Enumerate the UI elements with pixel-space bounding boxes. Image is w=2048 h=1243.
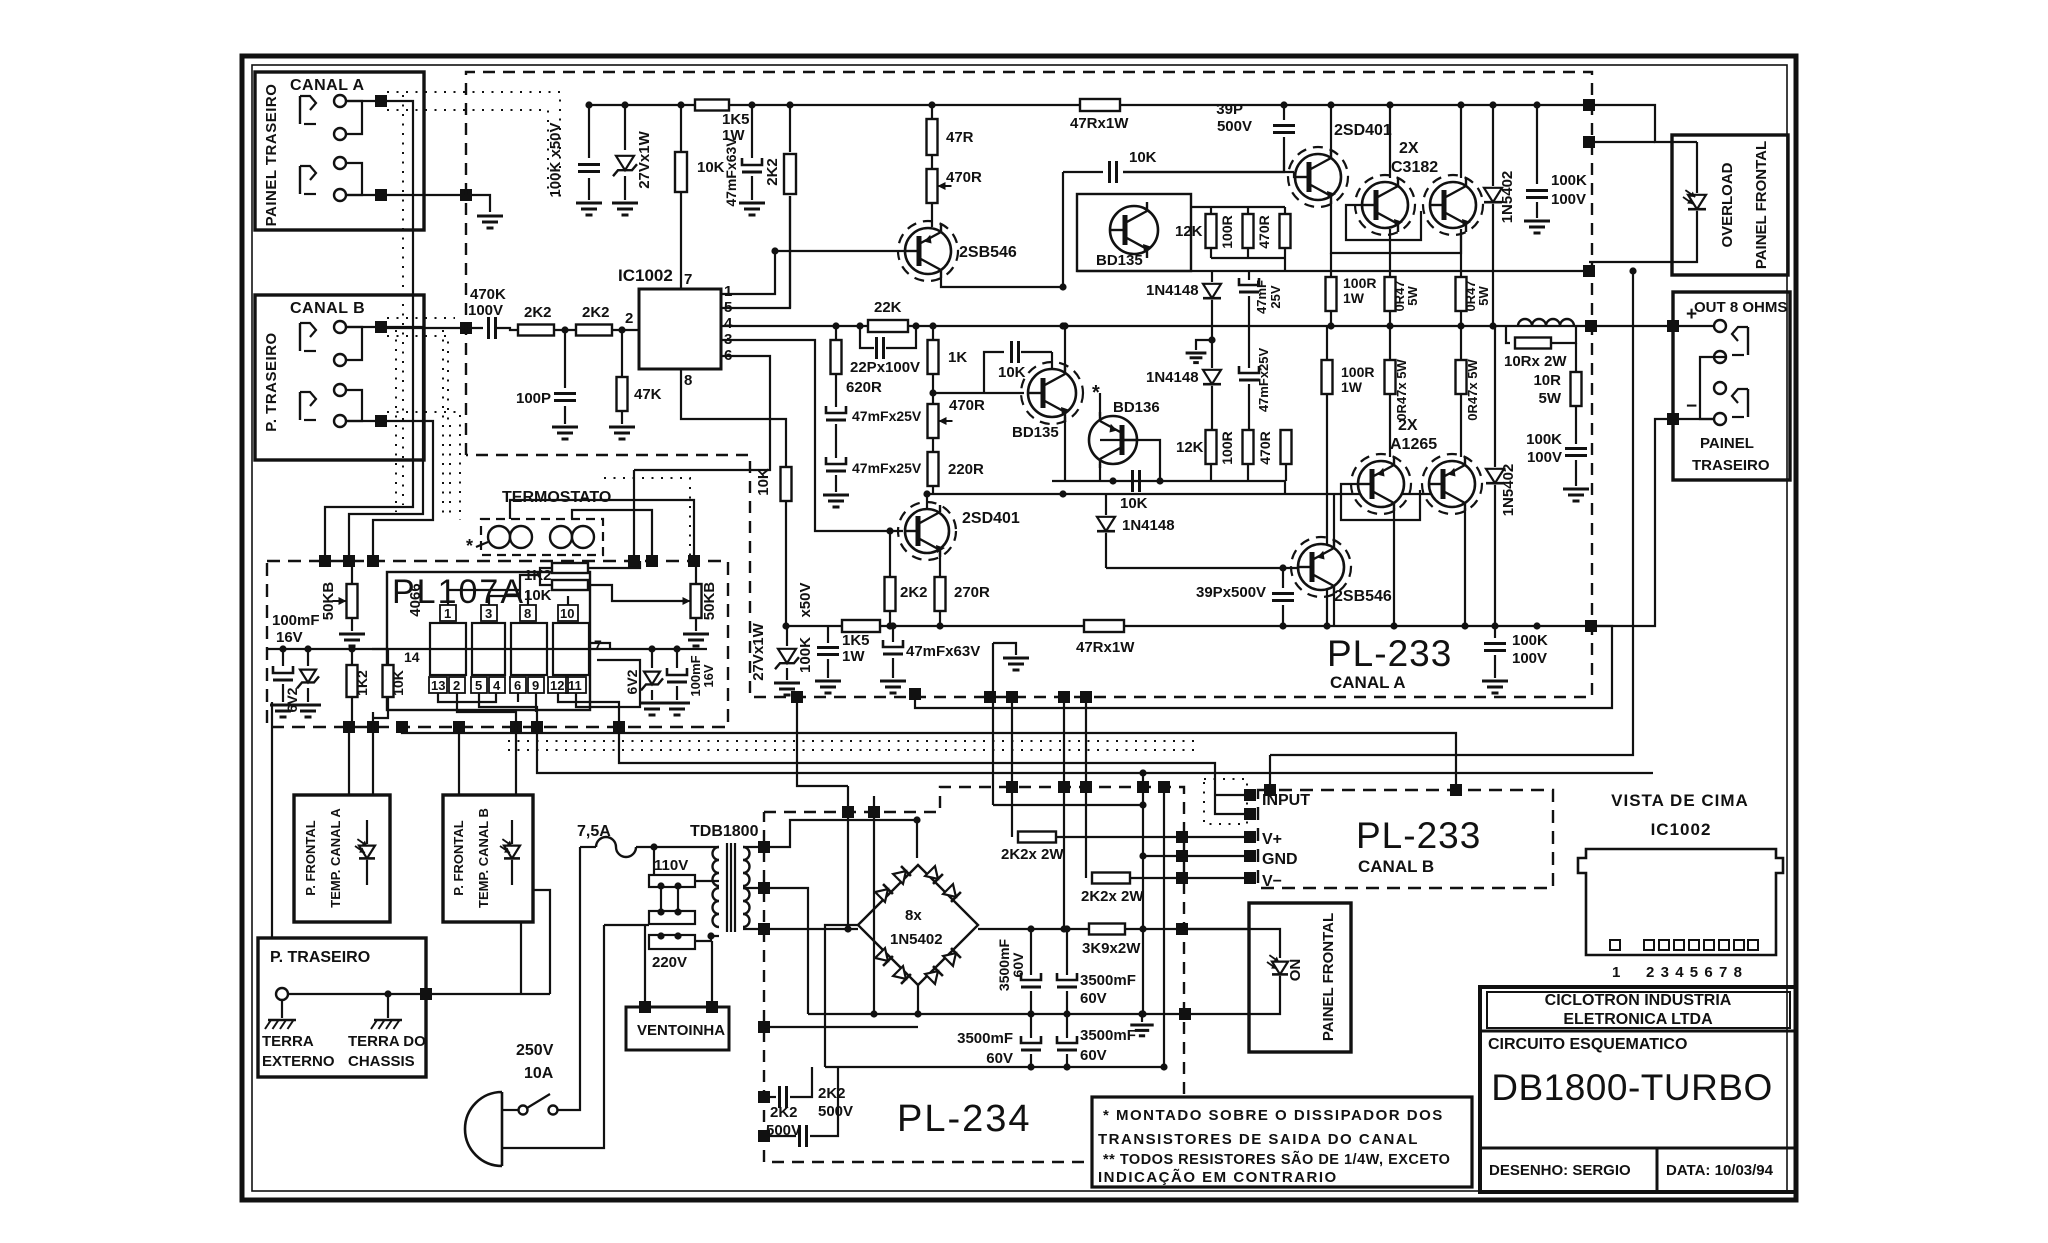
pin tab 3 [481,605,497,621]
wire BD135mid base tap [933,392,1024,394]
resistor 1K5 1W bot [842,620,880,632]
diode bridge 8 [943,948,961,966]
potentiometer 470R mid [928,404,953,452]
node mid bus dots [1059,322,1496,629]
svg-text:OVERLOAD: OVERLOAD [1719,162,1736,247]
label 100K bot (rot) [797,637,814,673]
label x50V (rot) [797,582,814,617]
wire to P.FRONTAL B b [458,727,460,795]
resistor 100R 1W low [1322,326,1333,626]
label 50KB left (rot) [320,582,337,621]
node pads INPUT [1244,789,1256,820]
svg-text:16V: 16V [276,629,303,646]
wire CANAL B sleeve to pad [346,420,381,422]
label 1N4148 mid [1146,369,1199,386]
node 10K rail dot [782,622,789,629]
label PAINEL FRONTAL overload (rot) [1753,141,1770,269]
jack OUT a [1732,327,1748,355]
label 10K bypass [998,364,1026,381]
wire BD135 collector up [1052,326,1065,370]
pin 5 label [724,299,732,316]
svg-text:7: 7 [1719,964,1727,981]
transformer core [727,843,735,932]
node pad sec bot [758,923,770,935]
svg-text:100K x50V: 100K x50V [547,122,564,197]
pin tab 8 [520,605,536,621]
wire terra riser [533,890,550,994]
title block outer [1480,987,1796,1192]
label 100R up (rot) [1219,215,1235,248]
node rail dot a [585,101,592,108]
wire terra bus [288,993,550,995]
wire 2SD401r emit to bases [1331,201,1461,253]
node rail dot d [748,101,755,108]
wire 110V box out [695,880,719,882]
zener 6V2 right [641,649,663,700]
capacitor 100P [554,330,576,424]
wire A1265 base step [1341,484,1420,520]
jack J2a [300,323,316,351]
resistor 470R low [1281,430,1292,481]
wire pin8 to 10K [681,369,786,468]
node pad mid bus edge [1585,320,1597,332]
svg-text:1N4148: 1N4148 [1146,369,1199,386]
node pad low rail edge [1585,620,1597,632]
wire 4066 bottom wiring a [438,693,496,702]
ground chA input [1003,658,1029,670]
node pad chA V+ [791,691,803,703]
label 47mFx63V bot [906,643,980,660]
label 2K2x 2W a [1001,846,1064,863]
svg-text:1: 1 [444,606,451,621]
label 0R47 5W b (rot) [1463,280,1491,311]
node pad sec top [758,841,770,853]
label 3500mF 60V c [957,1030,1013,1067]
ground 100mF left [270,705,296,717]
svg-text:100K: 100K [1551,172,1587,189]
ground 100K top [576,203,602,215]
svg-text:16V: 16V [701,664,716,687]
wire cap to 2K2 [497,328,518,330]
svg-text:7: 7 [684,271,692,288]
wire 4066 pin wires top [448,590,520,605]
terminal circle terra [276,988,288,1000]
svg-text:8x: 8x [905,907,922,924]
node pads PL107A bottom [343,721,625,733]
svg-text:39Px500V: 39Px500V [1196,584,1266,601]
svg-text:100R: 100R [1343,275,1376,291]
capacitor 47mFx25V b [826,457,846,492]
op-amp IC1002 body [639,289,721,369]
label 47mFx25V b [852,460,922,476]
node 1K top dot [929,322,936,329]
svg-text:10K: 10K [697,159,725,176]
svg-text:2K2: 2K2 [524,304,552,321]
wire pin7 [680,193,682,289]
label 110V [654,857,688,874]
node rail dot f [928,101,935,108]
capacitor 100K 100V bot [1484,626,1506,678]
svg-text:47Rx1W: 47Rx1W [1070,115,1129,132]
inductor L1 [1518,319,1574,326]
wire 2SB546 emitter to rail x1063 [941,278,1063,287]
capacitor 47mFx63V top [742,105,762,200]
node pads V- [1176,872,1256,884]
ground TERRA EXTERNO [265,1020,296,1029]
label 10K v (rot) [390,670,406,696]
note line 3 [1103,1150,1450,1168]
svg-text:CANAL A: CANAL A [290,77,365,94]
diode 1N4148 low [1097,494,1115,568]
label GND [1262,851,1298,868]
node rail dots 2K2/270R [886,622,943,629]
pin 8 label [684,372,692,389]
label 100R 1W low [1341,364,1374,395]
svg-text:470K: 470K [470,286,506,303]
svg-text:A1265: A1265 [1390,436,1437,453]
label PAINEL TRASEIRO (rot) [263,84,280,227]
label 22Px100V [850,359,920,376]
label 39Px500V bot [1196,584,1266,601]
switch S1 [519,1094,558,1115]
wire 10K right [588,585,685,601]
thermostat contacts [488,526,594,548]
module outline PL107A (dashed) [267,561,728,727]
resistor 1K2 h [552,563,588,573]
capacitor 100K x50V bot [817,626,839,678]
wire 4066 bottom wiring d [517,693,519,702]
label P. TRASEIRO (rot) [263,332,280,431]
label 100R low (rot) [1219,431,1235,464]
module outline PL-233 CANAL B (dashed) [1258,790,1553,888]
svg-text:100R: 100R [1341,364,1374,380]
svg-text:VISTA DE CIMA: VISTA DE CIMA [1611,791,1749,810]
resistor 12K low [1206,430,1217,481]
node pad fan b [706,1001,718,1013]
svg-text:8: 8 [1734,964,1742,981]
resistor 12K up [1206,207,1217,258]
resistor 100R up [1243,207,1254,258]
title divider 3 [1656,1148,1659,1192]
svg-text:2K2x 2W: 2K2x 2W [1081,888,1144,905]
indicator box OVERLOAD [1672,135,1788,275]
transformer primary [713,847,720,927]
label 10K line [1129,149,1157,166]
svg-text:500V: 500V [1217,118,1252,135]
svg-text:0R47x 5W: 0R47x 5W [1465,359,1480,421]
label - out [1686,396,1697,417]
ground 100K up [1524,221,1550,233]
svg-text:6: 6 [1704,964,1712,981]
wire C3182 base step [1346,205,1421,240]
ground mid stub [1186,353,1207,363]
svg-text:60V: 60V [1010,952,1026,978]
svg-text:100K: 100K [1526,431,1562,448]
svg-text:60V: 60V [1080,990,1107,1007]
svg-text:250V: 250V [516,1042,554,1059]
ground mid bus [1130,1010,1153,1035]
zener 27Vx1W bot [775,626,799,680]
terminal circles CANAL A [334,95,346,201]
title company [1545,992,1732,1028]
label CANAL B [290,300,365,317]
resistor 0R47 5W b [1456,229,1467,326]
wire gnd feed down [992,643,994,805]
node rail dot c [677,101,684,108]
label 47Rx1W bot [1076,639,1135,656]
pin tabs bottom a [429,677,447,693]
pot 50KB left [333,584,358,631]
svg-text:470R: 470R [946,169,982,186]
wire BD136 base [1100,440,1160,481]
ground 50KB right [683,634,709,646]
ground 6V2 right [639,703,665,715]
svg-text:25V: 25V [1268,285,1283,308]
label 1K5 1W bot [842,632,870,665]
switch box mid [649,908,695,924]
analog switch 4066 unit4 [553,623,589,675]
svg-text:2K2: 2K2 [764,158,781,186]
svg-text:P. FRONTAL: P. FRONTAL [303,820,318,895]
node pad riser x1164 [1158,781,1170,793]
svg-text:110V: 110V [654,857,688,874]
svg-text:10: 10 [560,606,574,621]
svg-text:DB1800-TURBO: DB1800-TURBO [1491,1067,1773,1108]
wire bus chB mid [402,727,1456,790]
wire CANAL A sleeve to pad [346,194,381,196]
svg-text:INPUT: INPUT [1262,792,1310,809]
svg-text:1K5: 1K5 [722,111,750,128]
svg-text:27Vx1W: 27Vx1W [750,622,767,680]
svg-text:8: 8 [684,372,692,389]
node supply dots [279,645,680,652]
label pin7 4066 [594,637,602,653]
label 1N4148 low [1122,517,1175,534]
bridge diamond [858,865,978,985]
svg-text:CHASSIS: CHASSIS [348,1053,415,1070]
wire termostato link [572,510,652,561]
svg-text:220R: 220R [948,461,984,478]
svg-text:PL-233: PL-233 [1356,815,1481,856]
package outline IC1002 [1578,849,1783,955]
pin tabs bottom e [510,677,526,693]
label INPUT [1262,792,1310,809]
resistor 3K9x2W [1089,924,1125,935]
wire termostato up [510,500,694,561]
potentiometer 470R top [927,169,952,203]
wire 4066 bottom wiring b [457,693,516,727]
label 1K2 v (rot) [354,670,370,696]
svg-text:6: 6 [514,678,521,693]
label 47mFx63V top (rot) [723,137,739,207]
svg-text:ON: ON [1287,959,1304,982]
svg-text:1N5402: 1N5402 [1499,171,1516,224]
svg-text:3500mF: 3500mF [1080,1027,1136,1044]
jack OUT b [1732,389,1748,417]
svg-text:CICLOTRON INDUSTRIA: CICLOTRON INDUSTRIA [1545,992,1732,1009]
label pin14 [404,649,420,665]
svg-text:5W: 5W [1405,286,1420,306]
wire 2K2a-2K2b [554,329,576,331]
border frame outer [242,56,1796,1200]
wire V- feed chB [1085,697,1087,878]
wire gnd y805 [993,804,1143,806]
label 2SD401 mid [962,510,1020,527]
resistor 2K2x 2W b [1092,873,1130,884]
svg-text:14: 14 [404,649,420,665]
pin tabs bottom f [528,677,544,693]
jack J2b [300,392,316,420]
label 8x 1N5402 [890,907,943,948]
wire long input run [619,727,1215,795]
wire mid bus gnd [808,1013,1182,1015]
svg-text:50KB: 50KB [320,582,337,621]
label 100mF 16V right (rot) [688,655,716,696]
wire out+ feed [1591,325,1714,327]
label TEMP CANAL B (rot) [476,808,491,908]
pin tabs bottom h [566,677,586,693]
wire 50KB left top [351,561,353,584]
label PAINEL FRONTAL (rot) [1320,913,1337,1041]
wire overload tee down [1270,267,1637,755]
shield dots row A1 [387,92,560,200]
label 220V [652,954,687,971]
svg-text:2SD401: 2SD401 [962,510,1020,527]
label 2K2x 2W b [1081,888,1144,905]
ground zener top [612,203,638,215]
svg-text:3: 3 [1661,964,1669,981]
svg-text:2X: 2X [1399,140,1419,157]
svg-text:TEMP. CANAL A: TEMP. CANAL A [328,808,343,908]
connector box OUT 8 OHMS [1673,292,1790,480]
transistor 2SD401 mid [898,502,956,560]
label 470R low (rot) [1257,431,1273,464]
svg-text:BD135: BD135 [1096,252,1143,269]
capacitor 47mF 25V top [1239,271,1259,326]
resistor 10K v [383,649,394,712]
transistor BD135 mid [1021,362,1083,424]
wire sel mid out [604,924,649,926]
svg-text:39P: 39P [1216,101,1243,118]
wire BD135 top box [1077,194,1191,271]
wire pin5 to 2K2 rail [721,196,790,308]
resistor 2K2 a [518,325,554,336]
wire 470R low to bus494 [1284,481,1286,494]
svg-text:50KB: 50KB [701,582,718,621]
label 27Vx1W bot (rot) [750,622,767,680]
svg-text:*: * [466,536,473,556]
svg-text:2K2: 2K2 [770,1104,798,1121]
node top rail dots [1327,101,1540,108]
indicator box P.FRONTAL CANAL B [443,795,533,922]
label 3500mF 60V d [1080,1027,1136,1064]
LED overload [1672,142,1706,262]
wire A1265 cols [1394,508,1465,626]
label 2K2 pin5 (rot) [764,158,781,186]
svg-text:47mFx63V: 47mFx63V [723,137,739,207]
transistor 2SD401 right [1288,147,1348,207]
transistor A1265 b [1422,454,1482,514]
svg-text:2SB546: 2SB546 [959,244,1017,261]
wire 2SB546bot base line [1106,564,1297,571]
label 100mF 16V left [272,612,320,646]
node pad painel bottom [1179,1008,1191,1020]
node pad chB mid [1450,784,1462,796]
node 620R dot [832,322,839,329]
resistor 1K2 v [347,649,358,712]
svg-text:4066: 4066 [407,583,424,616]
svg-text:CANAL A: CANAL A [1330,673,1406,692]
label V- [1262,873,1282,890]
svg-text:100K: 100K [797,637,814,673]
wire left drop to P.TRASEIRO [271,702,273,938]
resistor 47R [927,119,938,155]
svg-text:IC1002: IC1002 [618,266,673,285]
svg-text:TERRA: TERRA [262,1033,314,1050]
node pad input on dashed edge [460,322,472,334]
resistor 10R 5W [1571,343,1582,444]
svg-text:TRASEIRO: TRASEIRO [1692,457,1770,474]
label 10Rx 2W [1504,353,1567,370]
node pad y271 edge [1583,265,1595,277]
wire 4066 bottom wiring c [479,693,537,727]
svg-text:2SD401: 2SD401 [1334,122,1392,139]
shield dots input box [1204,779,1247,824]
analog switch 4066 unit3 [511,623,547,675]
node pad overload top [1583,136,1655,148]
wire CANAL A internal [346,101,362,195]
label 27Vx1W top (rot) [636,130,653,188]
svg-text:PL-234: PL-234 [897,1098,1032,1140]
wire 4066 bottom wiring f [558,693,619,727]
svg-text:3500mF: 3500mF [1080,972,1136,989]
resistor 1K [928,326,939,404]
svg-text:CIRCUITO ESQUEMATICO: CIRCUITO ESQUEMATICO [1488,1036,1687,1053]
svg-text:2K2: 2K2 [900,584,928,601]
resistor 47Rx1W top [1080,99,1120,111]
diode 1N4148 mid [1203,340,1221,431]
zener 6V2 left [297,649,319,702]
label 2SB546 top [959,244,1017,261]
wire sec bot [743,928,858,930]
wire pin14 stub [372,648,387,650]
shield dots long a [508,740,1200,742]
label VISTA DE CIMA [1611,791,1749,810]
svg-text:100K: 100K [1512,632,1548,649]
wire painel frontal top [1182,928,1249,930]
resistor 100R 1W up [1326,253,1337,326]
wire fan feed a [644,925,646,1007]
label P. FRONTAL A (rot) [303,820,318,895]
wire braid B down [349,327,423,561]
connector box CANAL A [255,72,424,230]
title data [1666,1162,1774,1179]
svg-text:EXTERNO: EXTERNO [262,1053,335,1070]
svg-text:47mF: 47mF [1254,280,1269,314]
resistor 10K pin8 [781,467,792,626]
analog switch 4066 unit1 [430,623,466,675]
shield dots long b [508,749,1200,751]
node x1063 dot top [1059,283,1066,290]
shield dots column right2 [449,425,451,516]
wire P.FRONTAL B drop [520,922,522,994]
node pad out- [1667,413,1679,425]
wire plug line2 [502,925,604,1148]
resistor 0R47 5W a [1385,229,1396,326]
wire 220V box out [695,932,719,941]
label 47mFx25V mid (rot) [1256,348,1271,413]
wire 12K bottoms [1211,257,1285,259]
